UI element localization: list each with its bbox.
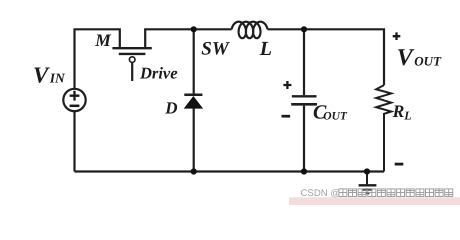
svg-text:OUT: OUT (323, 110, 348, 122)
svg-text:M: M (94, 30, 112, 50)
svg-text:SW: SW (201, 38, 230, 59)
svg-text:V: V (397, 45, 415, 71)
svg-text:L: L (259, 38, 272, 60)
svg-text:D: D (164, 98, 177, 117)
svg-text:OUT: OUT (414, 54, 442, 69)
svg-text:R: R (392, 101, 405, 121)
svg-text:L: L (403, 109, 411, 123)
svg-text:V: V (33, 63, 50, 88)
svg-text:IN: IN (49, 71, 66, 86)
svg-text:CSDN @: CSDN @ (301, 188, 341, 199)
svg-text:Drive: Drive (139, 63, 178, 82)
